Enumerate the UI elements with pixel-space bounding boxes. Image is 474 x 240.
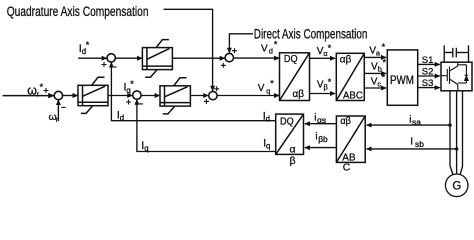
svg-text:*: *: [382, 42, 386, 52]
svg-text:DQ: DQ: [284, 54, 298, 66]
svg-text:C: C: [343, 161, 351, 173]
svg-text:*: *: [328, 77, 332, 87]
svg-text:β: β: [290, 155, 296, 167]
svg-text:βb: βb: [318, 134, 328, 144]
svg-text:d: d: [269, 47, 273, 56]
svg-text:*: *: [328, 43, 332, 53]
svg-text:*: *: [274, 39, 278, 49]
svg-text:I: I: [410, 136, 413, 147]
svg-text:V: V: [258, 83, 265, 94]
svg-text:V: V: [261, 44, 268, 55]
svg-text:Quadrature Axis Compensation: Quadrature Axis Compensation: [7, 3, 149, 19]
svg-text:αβ: αβ: [293, 89, 305, 100]
svg-text:S1: S1: [422, 55, 434, 66]
svg-text:*: *: [383, 57, 387, 67]
svg-text:αβ: αβ: [340, 54, 352, 65]
svg-text:S3: S3: [422, 78, 434, 89]
svg-text:q: q: [144, 144, 148, 153]
svg-text:Direct Axis Compensation: Direct Axis Compensation: [254, 26, 368, 42]
svg-text:G: G: [452, 181, 461, 193]
svg-text:sb: sb: [415, 139, 424, 149]
svg-text:S2: S2: [422, 66, 434, 77]
svg-text:α: α: [290, 143, 296, 155]
svg-text:d: d: [266, 114, 270, 123]
svg-text:sa: sa: [412, 117, 421, 127]
svg-text:a: a: [376, 49, 381, 58]
svg-text:DQ: DQ: [280, 116, 294, 128]
svg-text:*: *: [382, 73, 386, 83]
svg-text:ABC: ABC: [343, 90, 363, 101]
svg-text:αs: αs: [317, 115, 326, 125]
svg-text:*: *: [86, 40, 90, 50]
svg-text:*: *: [40, 82, 44, 92]
svg-text:PWM: PWM: [390, 75, 414, 88]
svg-text:αβ: αβ: [340, 115, 351, 127]
svg-text:d: d: [120, 113, 124, 122]
svg-text:q: q: [266, 141, 270, 150]
svg-text:*: *: [270, 79, 274, 89]
svg-text:*: *: [130, 79, 134, 89]
